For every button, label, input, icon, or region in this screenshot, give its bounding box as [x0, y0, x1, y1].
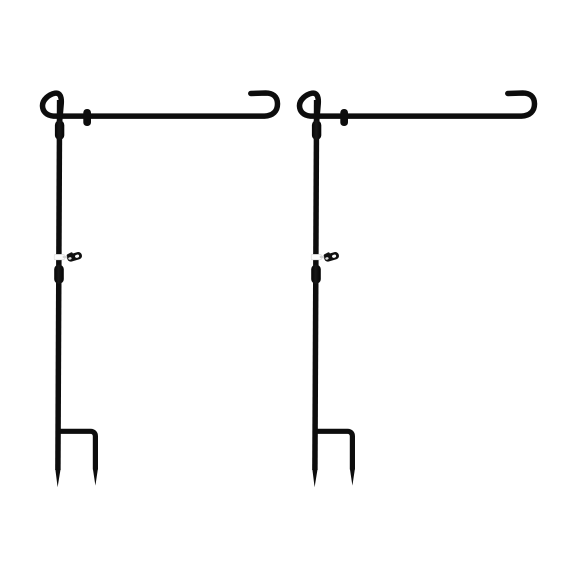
stand2 upper ferrule joint — [312, 120, 321, 139]
stand2 clip — [323, 249, 340, 262]
stand1 white rubber band on pole — [54, 254, 64, 259]
stand2 flag stopper on bar — [340, 109, 348, 126]
garden flag stand 1 — [42, 93, 277, 487]
stand2 vertical pole — [315, 100, 317, 470]
stand2 top bar with loop and hook — [299, 93, 534, 124]
stand1 lower ferrule joint — [54, 265, 64, 284]
stand1 ground fork bar and prong — [59, 431, 96, 469]
stand1 clip — [66, 249, 83, 262]
stand1 vertical pole — [58, 100, 60, 470]
stand1 top bar with loop and hook — [42, 93, 277, 124]
stand1 white string to clip — [64, 256, 70, 259]
stand2 pole ground spike — [312, 469, 317, 487]
stand2 white rubber band on pole — [311, 254, 321, 259]
stand1 pole ground spike — [55, 469, 60, 487]
stand2 ground fork bar and prong — [316, 431, 353, 469]
stand1 flag stopper on bar — [83, 109, 91, 126]
stand1 upper ferrule joint — [55, 120, 64, 139]
garden flag stand 2 — [299, 93, 534, 487]
stand2 white string to clip — [321, 256, 327, 259]
stand2 lower ferrule joint — [311, 265, 321, 284]
